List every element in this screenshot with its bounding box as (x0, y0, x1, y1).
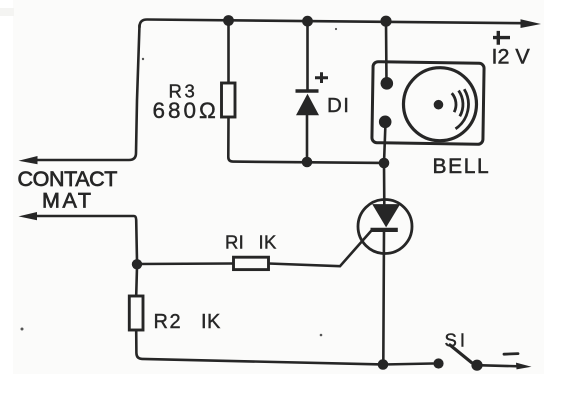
svg-text:BELL: BELL (433, 155, 491, 178)
svg-text:SI: SI (445, 330, 468, 351)
svg-text:R2: R2 (154, 311, 183, 333)
svg-text:MAT: MAT (42, 189, 94, 213)
svg-text:IK: IK (259, 232, 277, 253)
svg-text:DI: DI (327, 94, 351, 117)
svg-text:680Ω: 680Ω (153, 98, 219, 123)
svg-text:IK: IK (201, 311, 221, 333)
svg-text:CONTACT: CONTACT (18, 167, 118, 191)
svg-text:I2 V: I2 V (492, 45, 531, 69)
svg-text:RI: RI (225, 232, 244, 253)
